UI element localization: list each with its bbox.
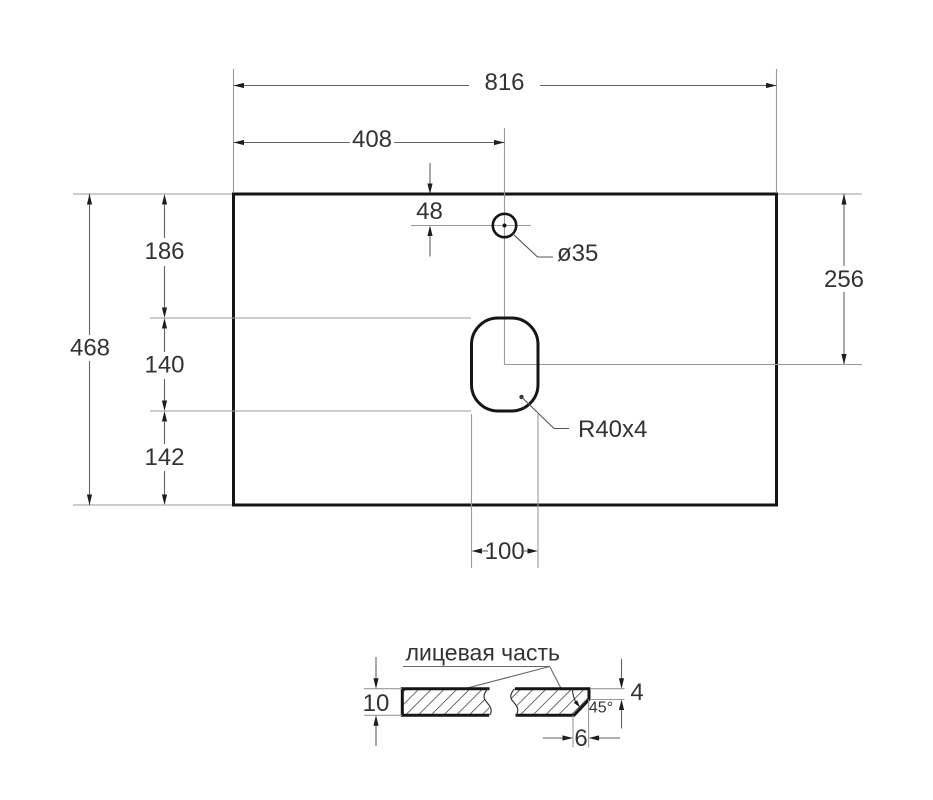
svg-text:48: 48 xyxy=(416,198,443,225)
countertop outline xyxy=(234,194,777,505)
svg-text:468: 468 xyxy=(70,335,110,362)
dimension 186 xyxy=(144,194,184,318)
svg-text:R40x4: R40x4 xyxy=(578,416,647,443)
svg-text:816: 816 xyxy=(484,69,524,96)
dimension 100 xyxy=(472,538,539,565)
extension line cutout left vertical xyxy=(471,414,473,568)
basin cutout R40x4 xyxy=(472,318,539,411)
svg-text:45°: 45° xyxy=(589,700,613,717)
section right bar xyxy=(510,689,590,716)
dimension 140 xyxy=(144,318,184,411)
extension line left top horizontal xyxy=(73,193,232,195)
extension line y318 xyxy=(150,317,471,319)
extension line y411 xyxy=(150,410,471,412)
svg-text:10: 10 xyxy=(363,690,390,717)
faucet hole ø35 xyxy=(493,214,516,237)
svg-text:100: 100 xyxy=(485,538,525,565)
extension line top-left vertical xyxy=(233,69,235,192)
extension line right top horizontal xyxy=(778,193,862,195)
svg-text:256: 256 xyxy=(824,266,864,293)
svg-text:4: 4 xyxy=(630,679,643,706)
svg-text:408: 408 xyxy=(352,126,392,153)
dimension 256 xyxy=(824,194,864,365)
centerline horizontal through hole xyxy=(411,225,531,227)
centerline vertical through hole xyxy=(504,128,506,365)
svg-text:ø35: ø35 xyxy=(557,240,598,267)
dimension 48 xyxy=(416,163,443,257)
svg-text:лицевая часть: лицевая часть xyxy=(406,640,560,666)
section extension lines left xyxy=(364,689,402,716)
section label лицевая часть xyxy=(403,640,561,689)
extension line left bottom horizontal xyxy=(73,504,232,506)
svg-text:140: 140 xyxy=(144,352,184,379)
extension line top-right vertical xyxy=(776,69,778,192)
section extension lines right for 4 xyxy=(590,689,625,700)
dimension 142 xyxy=(144,411,184,505)
extension lines for 6 xyxy=(573,700,589,748)
angle 45 degrees xyxy=(572,690,613,717)
dimension 6 xyxy=(543,725,620,752)
dimension 408 xyxy=(234,126,505,153)
svg-text:186: 186 xyxy=(144,238,184,265)
dimension 468 xyxy=(70,194,110,505)
leader R40x4 xyxy=(519,395,647,443)
leader ø35 xyxy=(513,234,599,267)
dimension 4 xyxy=(619,659,644,729)
dimension 816 xyxy=(234,69,777,96)
extension line cutout right vertical xyxy=(537,414,539,568)
section left bar xyxy=(402,689,491,716)
cutout center horizontal line xyxy=(505,364,863,366)
svg-text:142: 142 xyxy=(144,444,184,471)
svg-text:6: 6 xyxy=(574,725,587,752)
dimension 10 xyxy=(363,657,390,746)
